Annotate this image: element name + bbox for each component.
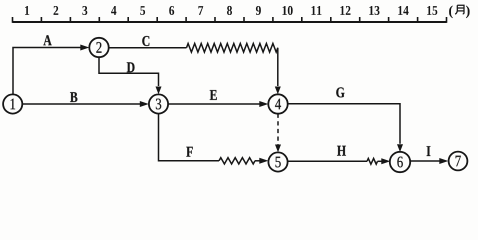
node 7 circle [449, 152, 468, 171]
activity label F [186, 147, 192, 157]
wire I: from node 6 right to node 7 [410, 160, 440, 162]
arrowhead E into node 4 [259, 101, 268, 107]
wire B: from node 1 right to node 3 [22, 103, 140, 105]
arrowhead F into node 5 [259, 158, 268, 164]
arrowhead A into node 2 [80, 45, 89, 51]
node 5 number [276, 157, 281, 168]
activity label H [337, 146, 346, 156]
dashed dummy arrow: node 4 down to node 5 [277, 114, 279, 145]
arrowhead dummy into node 5 [275, 145, 281, 153]
activity label B [70, 92, 77, 102]
node 1 circle [3, 94, 22, 113]
node 6 number [397, 157, 402, 168]
arrowhead G into node 6 [397, 144, 403, 152]
scale number 4 [111, 6, 116, 15]
scale number 13 [369, 6, 379, 15]
node 2 circle [89, 38, 108, 57]
wire E: from node 3 right to node 4 [168, 103, 260, 105]
scale number 5 [140, 6, 145, 15]
node 1 number [11, 99, 16, 110]
scale number 9 [256, 6, 261, 15]
scale number 15 [427, 6, 437, 15]
activity label I [427, 146, 431, 156]
scale number 3 [82, 6, 87, 15]
wire F: from node 3 down, right, zigzag, into node 5 [159, 114, 220, 161]
scale number 14 [398, 6, 408, 15]
scale number 6 [169, 6, 174, 15]
wire A: from node 1 up and right to node 2 [13, 48, 81, 95]
wire H: from node 5 right, zigzag, into node 6 [288, 160, 367, 162]
wire G: from node 4 right then down into node 6 [288, 104, 400, 144]
activity label C [142, 36, 149, 46]
node 3 number [156, 99, 161, 110]
arrowhead H into node 6 [381, 158, 390, 164]
unit label: yue (month) character drawn as strokes [455, 5, 464, 14]
node 4 number [275, 99, 281, 110]
node 6 circle [390, 152, 410, 172]
node 4 circle [268, 94, 287, 113]
scale number 1 [25, 6, 29, 15]
unit label parentheses [449, 6, 453, 19]
activity label A [43, 35, 51, 45]
scale number 2 [54, 6, 59, 15]
scale number 7 [198, 6, 203, 15]
arrowhead B into node 3 [140, 101, 149, 107]
scale number 11 [312, 6, 322, 15]
node 3 circle [149, 94, 168, 113]
activity label D [127, 62, 135, 72]
scale number 8 [227, 6, 232, 15]
wire D: from node 2 down, right, down into node 3 [99, 57, 159, 86]
wire C: from node 2 right (free float zigzag) then down into node 4 [109, 47, 187, 49]
node 5 circle [268, 152, 287, 171]
time scale baseline [13, 21, 447, 23]
node 7 number [456, 156, 461, 167]
time scale ticks [13, 17, 447, 23]
arrowhead C into node 4 [275, 87, 281, 95]
node 2 number [96, 42, 101, 53]
arrowhead I into node 7 [439, 158, 448, 164]
activity label E [210, 90, 217, 100]
arrowhead D into node 3 [156, 87, 162, 95]
scale number 12 [340, 6, 350, 15]
scale number 10 [283, 6, 293, 15]
activity label G [336, 87, 344, 97]
